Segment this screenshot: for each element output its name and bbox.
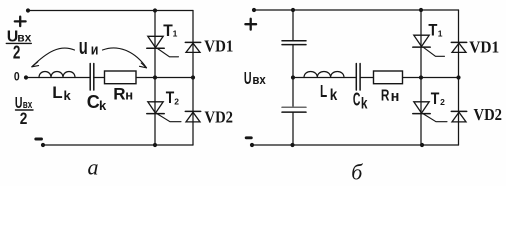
capacitor C1 b [282, 41, 306, 45]
label Uвх/2 top a [7, 29, 32, 63]
svg-text:T: T [166, 89, 175, 107]
wire diode leg a [192, 11, 194, 146]
svg-text:2: 2 [440, 97, 445, 107]
voltage arrow u_и right arc [103, 48, 147, 68]
svg-text:и: и [91, 42, 99, 59]
svg-text:k: k [99, 98, 107, 113]
junction dot b bottom cap leg [290, 143, 294, 147]
wire diode leg b [458, 10, 460, 145]
thyristor T1 b gate [424, 47, 445, 56]
terminal + dot b [252, 8, 256, 12]
minus sign b [246, 136, 251, 139]
svg-text:VD1: VD1 [469, 38, 499, 57]
junction dot a top [153, 8, 157, 12]
thyristor T2 a cathode bar [147, 113, 164, 115]
wire middle-right b [360, 77, 458, 79]
terminal - dot b [250, 143, 254, 147]
fraction bar bottom a [16, 109, 34, 111]
svg-text:U: U [244, 68, 252, 88]
svg-text:L: L [52, 83, 62, 102]
thyristor T1 a triangle [148, 36, 163, 47]
capacitor Ck a [90, 64, 94, 91]
label T2 a [166, 89, 179, 107]
label T1 b [428, 22, 442, 40]
thyristor T1 b triangle [414, 35, 429, 46]
thyristor T2 b gate [424, 114, 448, 122]
svg-text:а: а [88, 155, 99, 180]
svg-text:б: б [351, 159, 363, 184]
diode VD2 b triangle [452, 112, 466, 122]
svg-text:u: u [79, 34, 88, 59]
svg-text:н: н [391, 89, 400, 105]
svg-text:k: k [330, 87, 338, 104]
diode VD1 b triangle [452, 43, 466, 52]
svg-text:C: C [353, 88, 361, 109]
wire thyristor leg a [154, 11, 156, 146]
svg-text:R: R [113, 85, 125, 104]
junction dot b top cap leg [291, 8, 295, 12]
wire middle-right a [94, 77, 193, 79]
junction dot b bottom thyristor leg [420, 143, 424, 147]
diode VD2 b cathode bar [451, 110, 466, 112]
svg-text:2: 2 [13, 43, 21, 63]
plus sign b [245, 19, 256, 30]
thyristor T1 a cathode bar [147, 47, 164, 49]
label Ck a [87, 92, 107, 113]
svg-text:T: T [431, 90, 440, 108]
thyristor T2 b triangle [414, 102, 429, 113]
label u_и [79, 34, 99, 59]
svg-text:1: 1 [173, 29, 178, 39]
node dot 0 [24, 75, 28, 79]
inductor Lk a [39, 72, 75, 78]
minus sign a [36, 138, 42, 141]
wire top rail b [254, 9, 459, 11]
label Rн b [381, 87, 399, 105]
diode VD1 a cathode bar [185, 41, 200, 43]
resistor Rн a [105, 71, 137, 84]
svg-text:VD1: VD1 [204, 37, 233, 56]
terminal + dot a [26, 8, 30, 12]
diode VD1 b cathode bar [451, 41, 466, 43]
junction dot b mid cap leg [291, 75, 295, 79]
resistor Rн b [374, 71, 403, 84]
plus sign a [15, 17, 26, 26]
wire bottom rail b [252, 144, 459, 146]
wire middle b [293, 77, 356, 79]
capacitor C2 b [282, 106, 306, 108]
label T2 b [431, 90, 445, 108]
terminal - dot a [41, 143, 45, 147]
svg-text:вх: вх [252, 72, 266, 87]
svg-text:T: T [163, 22, 173, 40]
svg-text:0: 0 [14, 70, 20, 84]
label Ck b [353, 88, 368, 112]
capacitor Ck b [356, 64, 360, 91]
svg-text:2: 2 [20, 109, 28, 128]
junction dot b mid diode leg [456, 75, 460, 79]
svg-text:1: 1 [438, 28, 443, 38]
thyristor T1 b cathode bar [413, 46, 430, 48]
svg-text:T: T [428, 22, 437, 40]
svg-text:2: 2 [174, 97, 179, 107]
svg-text:C: C [87, 92, 100, 112]
junction dot b top thyristor leg [419, 8, 423, 12]
svg-text:k: k [361, 96, 368, 113]
thyristor T2 a triangle [148, 102, 163, 113]
label Lk a [52, 83, 71, 103]
label Rн a [113, 85, 133, 104]
svg-text:L: L [320, 81, 327, 101]
label T1 a [163, 22, 177, 40]
wire top rail a [28, 10, 193, 12]
svg-text:VD2: VD2 [205, 108, 234, 127]
svg-text:k: k [64, 88, 72, 103]
label Uвх/2 bottom a [15, 95, 33, 128]
fraction bar top a [6, 42, 31, 44]
svg-text:R: R [381, 87, 390, 104]
inductor Lk b [304, 72, 344, 78]
junction dot a mid-right [191, 75, 195, 79]
wire bottom rail a [43, 144, 193, 146]
label Lk b [320, 81, 337, 104]
thyristor T2 b cathode bar [413, 113, 430, 115]
diode VD2 a cathode bar [185, 110, 200, 112]
junction dot a mid-left [153, 75, 157, 79]
wire middle a [26, 77, 90, 79]
diode VD1 a triangle [186, 43, 200, 52]
junction dot a bottom [153, 143, 157, 147]
svg-text:VD2: VD2 [474, 105, 503, 124]
voltage arrow u_и left arc [32, 48, 75, 67]
wire thyristor leg b [420, 10, 422, 145]
diode VD2 a triangle [186, 112, 200, 122]
thyristor T2 a gate [158, 114, 182, 122]
thyristor T1 a gate [158, 49, 179, 57]
label Uвх b [244, 68, 267, 88]
wire input capacitor leg b [292, 10, 294, 145]
junction dot b mid thyristor leg [419, 75, 423, 79]
svg-text:н: н [125, 88, 133, 103]
